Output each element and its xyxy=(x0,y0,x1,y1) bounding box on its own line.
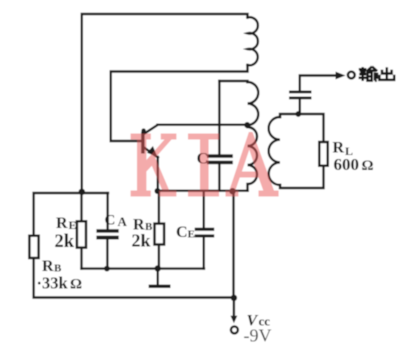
svg-text:·33k: ·33k xyxy=(37,274,69,293)
svg-text:R: R xyxy=(333,140,345,157)
svg-text:A: A xyxy=(118,214,128,229)
svg-text:Ω: Ω xyxy=(362,158,374,174)
svg-text:E: E xyxy=(188,229,195,241)
svg-text:600: 600 xyxy=(334,155,360,174)
svg-text:-9V: -9V xyxy=(244,326,272,346)
svg-text:2k: 2k xyxy=(55,232,75,252)
svg-text:C: C xyxy=(105,213,116,229)
svg-text:R: R xyxy=(56,215,68,232)
svg-text:C: C xyxy=(176,224,188,241)
svg-text:E: E xyxy=(69,218,77,232)
svg-text:Ω: Ω xyxy=(70,277,82,293)
svg-text:2k: 2k xyxy=(132,231,151,251)
